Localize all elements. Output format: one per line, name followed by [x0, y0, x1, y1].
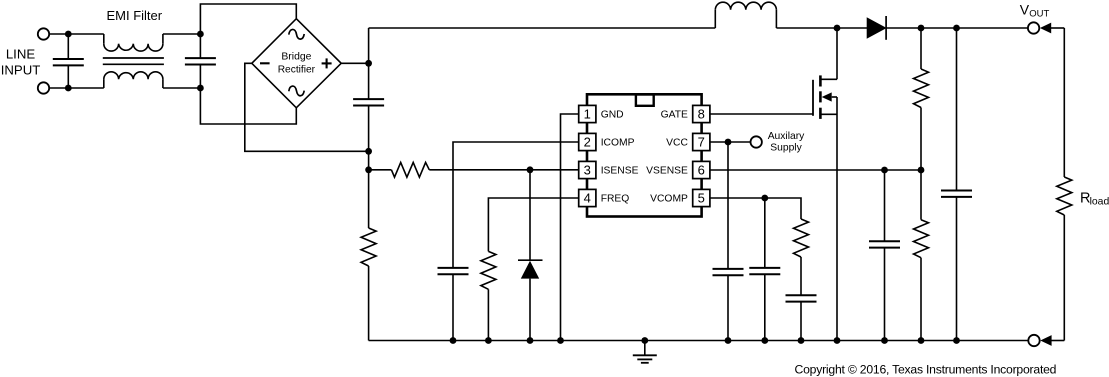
- wire GATE pin8 to gate: [710, 113, 813, 115]
- junction input top: [65, 31, 72, 38]
- wire ground rail: [369, 340, 1029, 342]
- resistor Rvcomp: [794, 219, 809, 257]
- pin 3 ISENSE: [579, 161, 596, 178]
- terminal VOUT: [1028, 22, 1039, 33]
- wire vcomp cap branch: [764, 198, 766, 268]
- svg-text:4: 4: [584, 191, 591, 206]
- junction input bottom: [65, 85, 72, 92]
- svg-text:FREQ: FREQ: [601, 194, 630, 205]
- terminal return: [1028, 335, 1039, 346]
- junction vsense cap tap: [881, 167, 888, 174]
- junction ground rail freq: [485, 337, 492, 344]
- capacitor Cvcomp2: [786, 294, 817, 296]
- wire divider lower lead: [920, 170, 922, 220]
- junction X2 bottom: [197, 85, 204, 92]
- junction isense tap: [365, 166, 372, 173]
- junction ground rail gnd pin: [557, 337, 564, 344]
- svg-text:3: 3: [584, 163, 591, 178]
- inductor L1 (boost): [714, 10, 716, 28]
- capacitor Cvcomp1: [749, 267, 780, 269]
- junction ground rail source: [834, 337, 841, 344]
- junction ground rail cout: [953, 337, 960, 344]
- wire top rail left: [369, 27, 716, 29]
- capacitor X2 (after choke): [199, 34, 201, 58]
- svg-text:GND: GND: [601, 110, 624, 121]
- wire GND pin1 to ground rail: [561, 114, 579, 341]
- wire bridge positive output: [341, 62, 368, 64]
- svg-text:5: 5: [698, 191, 705, 206]
- wire Cvcomp1 to ground rail: [764, 274, 766, 340]
- junction X2 top: [197, 31, 204, 38]
- svg-text:6: 6: [698, 163, 705, 178]
- svg-text:VCC: VCC: [666, 138, 688, 149]
- junction ground rail cvcomp1: [761, 337, 768, 344]
- capacitor Cvsense: [869, 240, 900, 242]
- wire X2 bottom node to bridge AC bottom: [200, 88, 296, 124]
- junction ground rail rvcomp: [798, 337, 805, 344]
- wire choke top to X2 node: [163, 33, 201, 35]
- wire output cap bottom lead: [956, 197, 958, 340]
- pin 6 VSENSE: [693, 161, 710, 178]
- wire source to ground rail: [836, 97, 838, 341]
- wire sense tap to Risense: [369, 169, 392, 171]
- svg-text:Rectifier: Rectifier: [278, 65, 316, 76]
- junction ground rail divider: [918, 337, 925, 344]
- pin 2 ICOMP: [579, 133, 596, 150]
- wire drain to top rail: [836, 28, 838, 79]
- svg-text:GATE: GATE: [661, 110, 688, 121]
- wire bridge negative to sense node: [245, 63, 369, 151]
- wire C icomp to ground rail: [452, 274, 454, 340]
- inductor: EMI choke bottom winding: [103, 79, 105, 88]
- junction VCC decoupling: [725, 139, 732, 146]
- svg-text:Auxilary: Auxilary: [768, 131, 805, 142]
- inductor: EMI choke core: [103, 57, 164, 59]
- svg-text:LINE: LINE: [6, 47, 36, 62]
- label LINE INPUT: [1, 47, 41, 78]
- svg-text:1: 1: [584, 107, 591, 122]
- resistor Rfb2 (divider bottom): [914, 220, 929, 258]
- resistor Rload: [1057, 177, 1072, 215]
- junction bridge- return: [365, 148, 372, 155]
- capacitor Cicomp: [438, 267, 469, 269]
- wire return arrow to Rload: [1051, 340, 1064, 342]
- capacitor Cin (input filter): [353, 98, 384, 100]
- wire diode tap down: [529, 170, 531, 260]
- wire bus bottom segment: [368, 266, 370, 341]
- diode D1 (boost): [867, 18, 885, 38]
- svg-text:EMI Filter: EMI Filter: [106, 8, 162, 23]
- wire VCOMP pin5 run: [710, 198, 801, 219]
- wire VOUT arrow to Rload: [1051, 27, 1065, 29]
- wire bus mid segment: [368, 106, 370, 229]
- wire Rfb2 to ground rail: [920, 258, 922, 341]
- svg-text:VSENSE: VSENSE: [646, 166, 688, 177]
- wire VCC pin7 to aux terminal: [710, 141, 750, 143]
- wire FREQ pin4 to Rfreq: [488, 198, 578, 251]
- inductor: EMI choke top winding: [103, 34, 105, 44]
- junction ground rail ground sym: [641, 337, 648, 344]
- wire ISENSE to pin3: [429, 169, 578, 171]
- resistor Rfreq: [481, 251, 496, 289]
- svg-text:load: load: [1090, 197, 1109, 208]
- wire divider top lead: [920, 28, 922, 69]
- wire Rvcomp to Cvcomp2: [800, 257, 802, 295]
- ground symbol: [644, 341, 646, 356]
- junction ground rail icomp: [450, 337, 457, 344]
- pin 7 VCC: [693, 133, 710, 150]
- junction ground rail cvsense: [881, 337, 888, 344]
- wire bus top segment: [368, 28, 370, 99]
- wire X2 top node to bridge AC top: [200, 4, 296, 34]
- diode D2 (clamp): [518, 259, 543, 261]
- svg-text:ICOMP: ICOMP: [601, 138, 635, 149]
- svg-text:VCOMP: VCOMP: [650, 194, 688, 205]
- wire top input to choke: [49, 33, 104, 35]
- resistor Rfb1 (divider top): [914, 69, 929, 108]
- wire Rload bottom lead: [1063, 215, 1065, 341]
- svg-text:INPUT: INPUT: [1, 63, 41, 78]
- wire divider mid lead: [920, 108, 922, 171]
- pin 1 GND: [579, 105, 596, 122]
- terminal: line input top: [38, 28, 49, 39]
- wire bottom input to choke: [49, 87, 104, 89]
- svg-text:8: 8: [698, 107, 705, 122]
- junction bridge+ on bus: [365, 60, 372, 67]
- arrow into VOUT: [1040, 23, 1051, 34]
- svg-text:ISENSE: ISENSE: [601, 166, 639, 177]
- arrow into return: [1040, 335, 1051, 346]
- capacitor Cout: [941, 190, 972, 192]
- junction output cap top: [953, 25, 960, 32]
- resistor Risense (filter): [391, 162, 429, 177]
- pin 4 FREQ: [579, 189, 596, 206]
- svg-text:Bridge: Bridge: [281, 51, 311, 62]
- capacitor X1 (line filter): [67, 34, 69, 59]
- junction drain node: [834, 25, 841, 32]
- pin 8 GATE: [693, 105, 710, 122]
- junction ground rail diode: [527, 337, 534, 344]
- terminal aux supply: [751, 136, 762, 147]
- wire Cvsense to ground rail: [884, 248, 886, 341]
- svg-text:7: 7: [698, 135, 705, 150]
- terminal: line input bottom: [38, 82, 49, 93]
- wire top rail mid: [776, 27, 867, 29]
- junction divider mid: [918, 167, 925, 174]
- junction vcomp cap tap: [761, 195, 768, 202]
- svg-text:Supply: Supply: [770, 142, 802, 153]
- capacitor Cvcc: [713, 268, 744, 270]
- resistor Rsense (to ground): [361, 228, 376, 266]
- bridge rectifier BR1: [252, 19, 341, 108]
- svg-text:Copyright © 2016, Texas Instru: Copyright © 2016, Texas Instruments Inco…: [795, 363, 1057, 377]
- wire output cap top lead: [956, 28, 958, 190]
- pin 5 VCOMP: [693, 189, 710, 206]
- wire vsense cap branch: [884, 170, 886, 241]
- wire Rfreq to ground rail: [487, 289, 489, 340]
- wire VSENSE pin6 to divider: [710, 169, 921, 171]
- junction ground rail cvcc: [725, 337, 732, 344]
- junction divider top: [918, 25, 925, 32]
- wire VCC cap branch: [727, 142, 729, 269]
- svg-text:OUT: OUT: [1029, 8, 1049, 19]
- op-amp U1 body (UCC28019 outline): [587, 94, 702, 216]
- transistor Q1 (MOSFET): [812, 80, 814, 116]
- wire Cvcomp2 to ground rail: [800, 302, 802, 341]
- wire Rload top lead: [1063, 28, 1065, 177]
- wire choke bottom to X2 node: [163, 87, 201, 89]
- wire Cvcc to ground rail: [727, 275, 729, 340]
- wire top rail right: [886, 27, 1028, 29]
- wire ICOMP pin2 to C icomp: [453, 142, 579, 268]
- junction diode tap: [527, 166, 534, 173]
- svg-text:2: 2: [584, 135, 591, 150]
